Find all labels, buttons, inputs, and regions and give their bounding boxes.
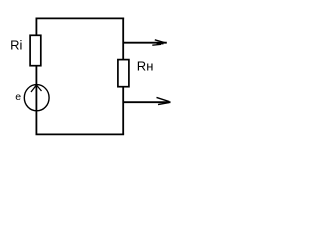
arrowhead output top thick mass (157, 42, 164, 44)
resistor Ri (30, 35, 41, 65)
arrowhead output top lower barb (152, 43, 161, 46)
arrowhead output bottom lower barb (158, 103, 169, 105)
arrowhead output top upper barb (155, 40, 166, 43)
EMF arrow head right barb (36, 85, 41, 91)
wire left vertical (35, 18, 37, 135)
wire right vertical (122, 18, 124, 135)
wire output bottom (123, 101, 171, 103)
arrowhead output bottom upper barb (157, 97, 170, 101)
EMF source e (circle) (24, 85, 49, 111)
resistor Rн (118, 60, 129, 87)
svg-text:Ri: Ri (10, 38, 22, 53)
svg-text:e: e (15, 91, 21, 103)
wire bottom (36, 133, 125, 135)
wire top (36, 17, 125, 19)
svg-text:Rн: Rн (137, 59, 154, 74)
wire output top (123, 42, 167, 44)
EMF arrow head left barb (31, 85, 36, 92)
